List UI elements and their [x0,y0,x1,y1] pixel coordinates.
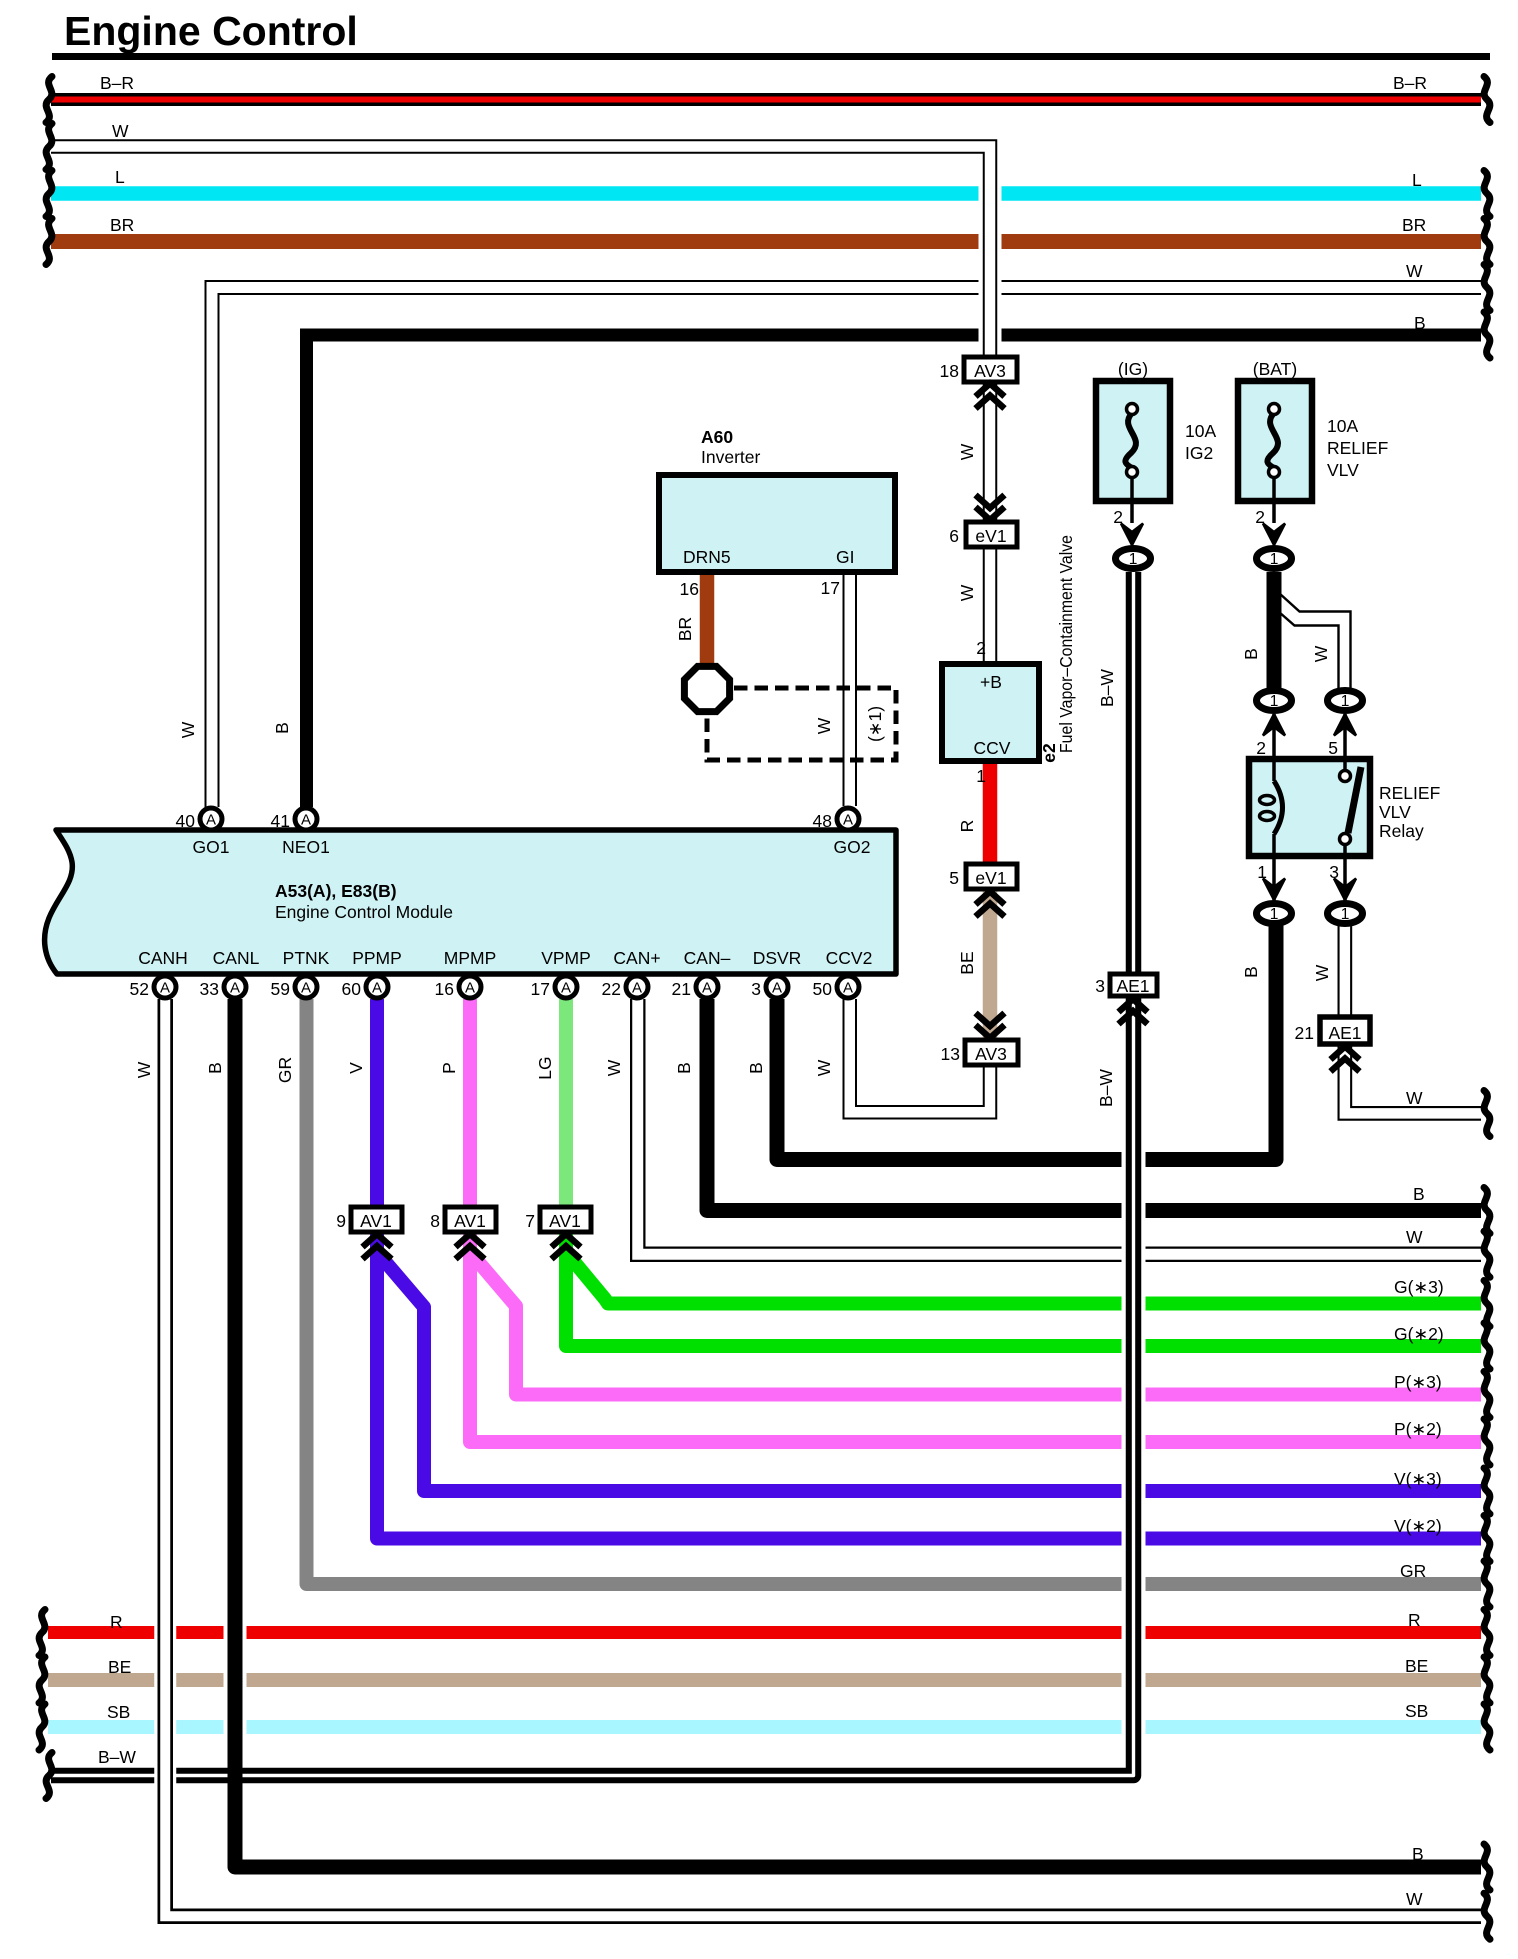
svg-text:10A: 10A [1327,416,1358,436]
svg-text:W: W [112,121,129,141]
svg-text:3: 3 [1095,976,1105,996]
chevrons below AE1 21 [1331,1047,1360,1072]
wire R bus (bottom) [48,1626,1481,1639]
svg-text:41: 41 [271,811,290,831]
svg-text:W: W [1406,1889,1423,1909]
chevrons below eV1 5 [976,892,1005,917]
wire relay pin3 lead [1343,855,1347,902]
svg-text:13: 13 [941,1044,960,1064]
wire B from fuse BAT to oval 1 [1267,572,1282,690]
svg-text:BE: BE [957,951,977,974]
svg-text:LG: LG [535,1056,555,1079]
connector AV3 18 [964,357,1017,382]
svg-text:W: W [1311,645,1331,662]
wire B-W from fuse IG via AE1 pin 3 to left [51,572,1134,1776]
svg-text:Fuel Vapor–Containment Valve: Fuel Vapor–Containment Valve [1056,535,1076,753]
svg-text:B: B [272,722,292,734]
chevrons above AV3 13 [976,1013,1005,1038]
svg-text:9: 9 [336,1211,346,1231]
pin 3 A [766,976,788,998]
wire W branch from B to relay pin 5 oval [1279,593,1351,690]
arrow into BAT oval [1263,524,1285,546]
squiggle left W [46,124,52,170]
wire LG from ECM pin 17 VPMP to connector AV1 7 [559,999,573,1207]
squiggle right R [1484,1610,1490,1656]
svg-text:VLV: VLV [1327,460,1359,480]
wire BE from eV1 5 to AV3 13 [983,890,998,1040]
svg-text:V(∗3): V(∗3) [1394,1469,1442,1489]
squiggle left L [46,171,52,217]
svg-text:CAN+: CAN+ [613,948,660,968]
svg-text:AV1: AV1 [454,1211,486,1231]
wire SB bus (bottom) [48,1720,1481,1734]
A60 Inverter box [659,475,895,572]
svg-text:Engine Control Module: Engine Control Module [275,902,453,922]
wire W from A60 GI pin 17 to ECM pin 48 [843,573,858,806]
pin 48 A [837,808,859,830]
chevrons below AV3 18 [976,384,1005,409]
oval connector 1 (IG) [1116,549,1151,569]
svg-text:BR: BR [110,215,134,235]
wire relay pin2 lead [1272,714,1276,760]
svg-text:NEO1: NEO1 [282,837,330,857]
svg-text:G(∗2): G(∗2) [1394,1324,1444,1344]
chevrons below AE1 3 [1119,999,1148,1024]
svg-text:W: W [1406,261,1423,281]
svg-text:2: 2 [976,638,986,658]
svg-text:GR: GR [1400,1561,1426,1581]
arrow into IG oval [1121,524,1143,546]
svg-text:40: 40 [176,811,196,831]
svg-text:5: 5 [1328,738,1338,758]
wire B-R bus (top) [51,93,1481,106]
pin 59 A [295,976,317,998]
fuse BAT box [1238,381,1312,501]
svg-text:CCV: CCV [974,738,1011,758]
pin 16 A [459,976,481,998]
svg-text:L: L [1412,170,1422,190]
squiggle left R [39,1610,45,1656]
connector AV3 13 [965,1040,1018,1065]
connector eV1 6 [966,522,1017,547]
squiggle right P3 [1484,1372,1490,1418]
wire V from ECM pin 60 PPMP to connector AV1 9 [370,999,384,1207]
svg-text:B–R: B–R [100,73,134,93]
svg-text:48: 48 [813,811,832,831]
svg-text:7: 7 [525,1211,535,1231]
pin 52 A [154,976,176,998]
squiggle right BR [1484,219,1490,265]
svg-text:GO1: GO1 [193,837,230,857]
squiggle right G2 [1484,1323,1490,1369]
svg-text:8: 8 [430,1211,440,1231]
svg-text:R: R [1408,1610,1421,1630]
svg-text:L: L [115,167,125,187]
connector eV1 5 [966,864,1017,889]
svg-text:21: 21 [1295,1023,1314,1043]
svg-text:(∗1): (∗1) [865,706,885,742]
svg-text:22: 22 [602,979,621,999]
svg-text:CANL: CANL [213,948,260,968]
svg-text:18: 18 [940,361,959,381]
svg-text:A60: A60 [701,427,733,447]
pin 41 A [295,808,317,830]
svg-text:DSVR: DSVR [753,948,802,968]
squiggle right W top [1484,265,1490,311]
RELIEF VLV Relay box [1249,759,1370,856]
svg-text:16: 16 [435,979,454,999]
svg-text:17: 17 [531,979,550,999]
dashed shield wire [707,688,896,760]
svg-text:W: W [957,443,977,460]
shield octagon [684,666,729,711]
svg-text:AE1: AE1 [1328,1023,1361,1043]
svg-text:G(∗3): G(∗3) [1394,1277,1444,1297]
wire P(*3) branch from AV1 8 [470,1252,1481,1395]
svg-text:AV1: AV1 [360,1211,392,1231]
fuse BAT element [1267,404,1279,524]
wire P from ECM pin 16 MPMP to connector AV1 8 [463,999,477,1207]
svg-text:AV1: AV1 [549,1211,581,1231]
svg-text:DRN5: DRN5 [683,547,731,567]
arrow into relay5 oval [1334,714,1356,736]
svg-text:P: P [439,1062,459,1074]
squiggle right B CAN- [1484,1188,1490,1234]
svg-text:PPMP: PPMP [352,948,402,968]
wire W from ECM pin 22 CAN+ to right [638,999,1481,1254]
squiggle right BE [1484,1657,1490,1703]
squiggle left B-W [46,1753,52,1799]
relay coil [1260,759,1283,856]
connector AV1 8 [445,1207,496,1232]
svg-text:B: B [1413,1184,1425,1204]
squiggle left SB [39,1704,45,1750]
squiggle right B top [1484,312,1490,358]
wire BR bus (brown) [51,234,1481,249]
svg-text:B: B [1241,648,1261,660]
svg-text:17: 17 [821,578,840,598]
svg-text:GR: GR [275,1057,295,1083]
svg-text:V: V [346,1062,366,1074]
connector AV1 7 [540,1207,591,1232]
svg-text:RELIEF: RELIEF [1327,438,1388,458]
svg-text:SB: SB [107,1702,130,1722]
wire L bus (cyan) [51,186,1481,201]
pin 60 A [366,976,388,998]
svg-text:SB: SB [1405,1701,1428,1721]
svg-text:W: W [814,717,834,734]
svg-text:CCV2: CCV2 [826,948,873,968]
wire W from ECM pin 50 CCV2 to connector AV3 13 [850,999,990,1112]
svg-text:59: 59 [271,979,290,999]
oval connector 1 (BAT) [1257,549,1292,569]
svg-text:AV3: AV3 [975,1044,1007,1064]
pin 21 A [696,976,718,998]
wire P(*2) bus from AV1 8 [470,1232,1481,1442]
wire W from ECM pin 52 CANH to right bottom [165,999,1481,1916]
wire W bus from ECM pin 40 GO1 [212,288,1481,808]
svg-text:VPMP: VPMP [541,948,591,968]
svg-text:BE: BE [1405,1656,1428,1676]
CCV box Fuel Vapor-Containment Valve [942,664,1039,761]
svg-text:B: B [1241,966,1261,978]
wire V(*2) bus from AV1 9 [377,1232,1481,1539]
chevrons above eV1 6 [976,495,1005,520]
svg-text:W: W [957,584,977,601]
svg-text:GI: GI [836,547,854,567]
svg-text:(IG): (IG) [1118,359,1148,379]
squiggle right G3 [1484,1281,1490,1327]
wire B from ECM pin 21 CAN- to right [707,999,1481,1211]
svg-text:AE1: AE1 [1116,976,1149,996]
fuse IG box [1096,381,1170,501]
arrow into oval below relay 3 [1334,879,1356,901]
svg-text:R: R [957,820,977,833]
wire V(*3) branch from AV1 9 [377,1252,1481,1491]
svg-text:50: 50 [813,979,833,999]
relay switch [1340,759,1362,856]
svg-text:33: 33 [200,979,219,999]
svg-text:B: B [674,1062,694,1074]
svg-text:BR: BR [675,617,695,641]
svg-text:Engine Control: Engine Control [64,8,358,54]
svg-text:eV1: eV1 [975,868,1006,888]
fuse IG element [1125,404,1137,524]
squiggle right V2 [1484,1516,1490,1562]
pin 40 A [200,808,222,830]
svg-text:V(∗2): V(∗2) [1394,1516,1442,1536]
svg-text:W: W [134,1061,154,1078]
svg-text:W: W [1406,1088,1423,1108]
svg-text:BR: BR [1402,215,1426,235]
pin 22 A [626,976,648,998]
squiggle right L [1484,171,1490,217]
connector AV1 9 [351,1207,402,1232]
svg-text:(BAT): (BAT) [1253,359,1297,379]
svg-text:B: B [1414,313,1426,333]
wire G(*2) bus from AV1 7 [566,1232,1481,1346]
squiggle right W bottom [1484,1893,1490,1939]
svg-text:1: 1 [976,766,986,786]
squiggle right W CAN+ [1484,1231,1490,1277]
pin 17 A [555,976,577,998]
svg-text:PTNK: PTNK [283,948,330,968]
squiggle right B-R [1484,77,1490,123]
svg-text:MPMP: MPMP [444,948,497,968]
svg-text:W: W [604,1059,624,1076]
wire GR from ECM pin 59 PTNK to right [307,999,1482,1584]
squiggle right B bottom [1484,1844,1490,1890]
wire relay pin1 lead [1272,855,1276,902]
svg-text:B–W: B–W [1096,1069,1116,1107]
wire G(*3) branch from AV1 7 [566,1252,1481,1304]
svg-text:W: W [1406,1227,1423,1247]
svg-text:R: R [110,1612,123,1632]
squiggle left BR [46,219,52,265]
svg-text:+B: +B [980,672,1002,692]
svg-text:AV3: AV3 [974,361,1006,381]
ECM box A53(A) E83(B) [45,830,896,974]
svg-text:3: 3 [751,979,761,999]
squiggle right P2 [1484,1419,1490,1465]
svg-text:Inverter: Inverter [701,447,760,467]
svg-text:B: B [746,1062,766,1074]
wire BR from A60 DRN5 pin 16 to octagon [700,572,715,666]
svg-text:5: 5 [949,868,959,888]
svg-text:2: 2 [1256,738,1266,758]
svg-text:P(∗3): P(∗3) [1394,1372,1442,1392]
svg-text:52: 52 [130,979,149,999]
wire W from relay pin 3 to AE1 pin 21 and right [1345,925,1481,1113]
pin 50 A [837,976,859,998]
wire B from ECM pin 33 CANL to right bottom [235,999,1481,1867]
squiggle right W AE1 [1484,1091,1490,1137]
wire BE bus (bottom) [48,1673,1481,1687]
svg-text:60: 60 [342,979,362,999]
wire W bus (top, to connector AV3 18) with halo [51,147,990,665]
svg-text:W: W [178,721,198,738]
squiggle left B-R [46,77,52,123]
connector AE1 21 [1320,1017,1370,1044]
arrow into relay2 oval [1263,714,1285,736]
svg-text:GO2: GO2 [834,837,871,857]
svg-text:B: B [205,1062,225,1074]
svg-text:CANH: CANH [138,948,188,968]
svg-text:B: B [1412,1844,1424,1864]
svg-text:B–R: B–R [1393,73,1427,93]
svg-text:B–W: B–W [98,1747,136,1767]
svg-text:10A: 10A [1185,421,1216,441]
svg-text:VLV: VLV [1379,802,1411,822]
oval connector 1 (relay pin2 side) [1257,691,1292,711]
pin 33 A [224,976,246,998]
squiggle right SB [1484,1704,1490,1750]
svg-text:6: 6 [949,526,959,546]
wire B from ECM pin 3 DSVR to RELIEF VLV Relay pin 1 [777,925,1276,1160]
squiggle right GR [1484,1561,1490,1607]
oval connector 1 (below relay pin1) [1257,904,1292,924]
svg-text:Relay: Relay [1379,821,1424,841]
svg-text:P(∗2): P(∗2) [1394,1419,1442,1439]
arrow into oval below relay 1 [1263,879,1285,901]
squiggle left BE [39,1657,45,1703]
svg-text:B–W: B–W [1097,669,1117,707]
svg-text:IG2: IG2 [1185,443,1213,463]
svg-text:21: 21 [672,979,691,999]
wire relay pin5 lead [1343,714,1347,760]
wire R from CCV pin 1 to eV1 5 [983,761,998,864]
svg-text:BE: BE [108,1657,131,1677]
svg-text:CAN–: CAN– [684,948,731,968]
svg-text:16: 16 [680,579,699,599]
svg-text:A53(A), E83(B): A53(A), E83(B) [275,881,397,901]
svg-text:W: W [1312,964,1332,981]
squiggle right V3 [1484,1468,1490,1514]
oval connector 1 (relay pin5 side) [1328,691,1363,711]
wire B bus from ECM pin 41 NEO1 [307,335,1482,807]
svg-text:eV1: eV1 [975,526,1006,546]
connector AE1 3 [1110,974,1157,996]
svg-text:RELIEF: RELIEF [1379,783,1440,803]
oval connector 1 (below relay pin3) [1328,904,1363,924]
svg-text:W: W [814,1059,834,1076]
title underline [52,53,1490,60]
